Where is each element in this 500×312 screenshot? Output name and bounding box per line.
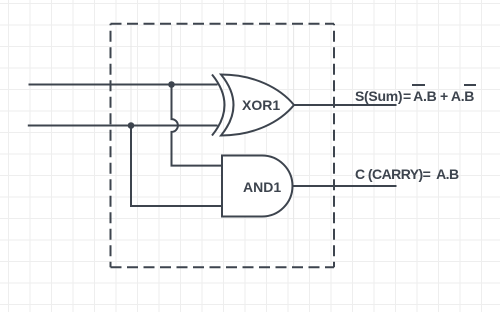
node junction on input A bbox=[168, 81, 175, 88]
label AND1 bbox=[243, 180, 281, 194]
XOR gate XOR1 bbox=[212, 75, 294, 136]
label XOR1 bbox=[242, 98, 280, 112]
overline over last B bbox=[464, 84, 476, 86]
label S output equation bbox=[355, 89, 474, 103]
label C output equation bbox=[355, 167, 459, 181]
wire output S bbox=[294, 104, 397, 106]
faint construction line above node on input B bbox=[130, 24, 132, 126]
wire from node on B down and right to AND1 input 2 bbox=[131, 126, 222, 207]
enclosure dashed box bbox=[111, 24, 335, 268]
wire input B (bottom) bbox=[28, 125, 218, 127]
faint construction line above node on input A bbox=[171, 24, 173, 85]
AND gate AND1 bbox=[222, 156, 292, 217]
node junction on input B bbox=[128, 122, 135, 129]
wire input A (top) bbox=[29, 84, 218, 86]
wire from node on A down to AND1 input 1, hopping over input B bbox=[172, 85, 223, 166]
faint construction line through gate output column bbox=[293, 24, 295, 267]
overline over first A bbox=[412, 84, 425, 86]
wire output C bbox=[293, 185, 397, 187]
